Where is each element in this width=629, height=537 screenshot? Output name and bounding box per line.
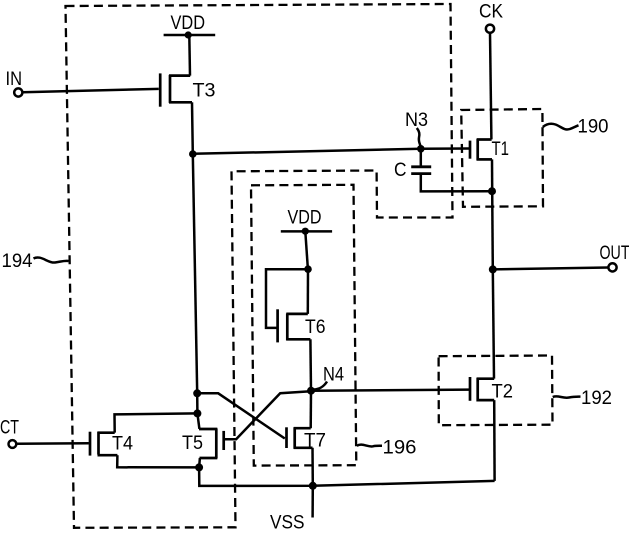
wire N4 down to T7 drain [309,391,312,429]
transistor T4 [90,432,117,456]
control terminal CT [9,440,17,448]
wire cross T5 gate line [225,391,311,439]
wire N3 to C top plate [420,149,423,166]
wire T6 source down to N4 [309,339,312,390]
wire long rail from T3 node down [193,154,197,393]
junction T6 drain node [304,265,312,273]
svg-text:CK: CK [479,1,503,22]
wire N3 to T1 gate [421,147,469,150]
transistor T1 [470,139,492,161]
wire C bottom plate down and right [421,175,492,192]
wire CT to T4 gate [16,442,89,445]
junction VSS [309,482,317,490]
junction OUT node [489,265,497,273]
wire T4 drain up and right to rail [115,413,198,432]
junction VDD-T3 [185,31,192,38]
wire T1 source down [491,159,494,191]
leader squiggle N3 [417,128,421,146]
wire bottom rail to VSS [199,467,495,486]
VDD rail top [164,34,216,37]
junction rail-T7gate [193,389,201,397]
wire IN to T3 gate [23,89,159,92]
wire OUT node to terminal [493,268,609,270]
capacitor C [411,167,431,174]
svg-text:T4: T4 [112,434,133,455]
dashed box 190 [461,109,543,207]
clock terminal CK [486,25,494,33]
junction N4 [307,387,315,395]
svg-text:T6: T6 [305,317,326,338]
dashed box 192 [439,356,553,426]
transistor T7 [287,427,313,449]
svg-text:VSS: VSS [270,512,305,532]
leader squiggle 190 [543,124,579,130]
dashed box 196 [251,185,356,466]
wire T3 drain to VDD [188,35,191,76]
wire T3 source down to node [191,102,194,154]
leader squiggle 194 [34,257,69,262]
wire node to N3 [193,149,421,154]
svg-text:T3: T3 [193,81,216,102]
svg-text:T5: T5 [182,433,203,454]
junction T3 source node [189,150,197,158]
wire T6 gate loop [266,269,308,328]
input terminal IN [14,88,22,96]
wire T5 bottom down to node [198,458,201,467]
wire rail down to T5 top [197,413,199,429]
dashed region boundary 194 [66,4,453,528]
svg-text:OUT: OUT [600,243,629,264]
svg-text:VDD: VDD [288,208,322,229]
wire VSS stub [311,486,314,518]
transistor T5 (gate on right) [199,429,224,459]
junction rail-T4 [193,409,201,417]
svg-text:N3: N3 [405,110,428,131]
junction bottom rail [195,463,203,471]
svg-text:IN: IN [6,69,23,90]
svg-text:196: 196 [383,437,417,458]
wire cross T7 gate line [197,393,285,438]
wire N4 to T2 gate [311,390,469,391]
leader squiggle N4 [314,382,327,390]
wire T6 drain up [307,269,310,314]
wire T7 source down to VSS [311,448,314,486]
svg-text:T7: T7 [304,430,326,451]
transistor T6 [278,309,311,342]
leader squiggle 192 [553,396,581,397]
junction T1-C node [488,187,496,195]
output terminal OUT [608,263,616,271]
wire T4 source down and right to rail [117,455,199,467]
wire OUT node down to T2 drain [493,269,494,378]
svg-text:190: 190 [578,117,609,138]
wire VDD mid down to T6 node [305,231,308,269]
transistor T2 [470,377,494,402]
wire T1 node down to OUT node [491,191,494,269]
junction VDD mid [302,228,309,235]
svg-text:194: 194 [2,251,33,272]
wire rail to T4 node [196,393,199,413]
svg-text:192: 192 [581,388,612,409]
junction N3 [417,145,425,153]
svg-text:CT: CT [0,418,19,439]
svg-text:VDD: VDD [171,13,206,34]
svg-text:C: C [394,160,407,181]
svg-text:T2: T2 [492,381,514,402]
leader squiggle 196 [357,445,382,447]
VDD rail middle [281,230,332,233]
svg-text:N4: N4 [323,365,344,386]
wire T2 source down to VSS rail [493,400,496,481]
wire CK down to T1 drain [490,33,491,139]
svg-text:T1: T1 [492,139,510,160]
transistor T3 [160,73,192,106]
